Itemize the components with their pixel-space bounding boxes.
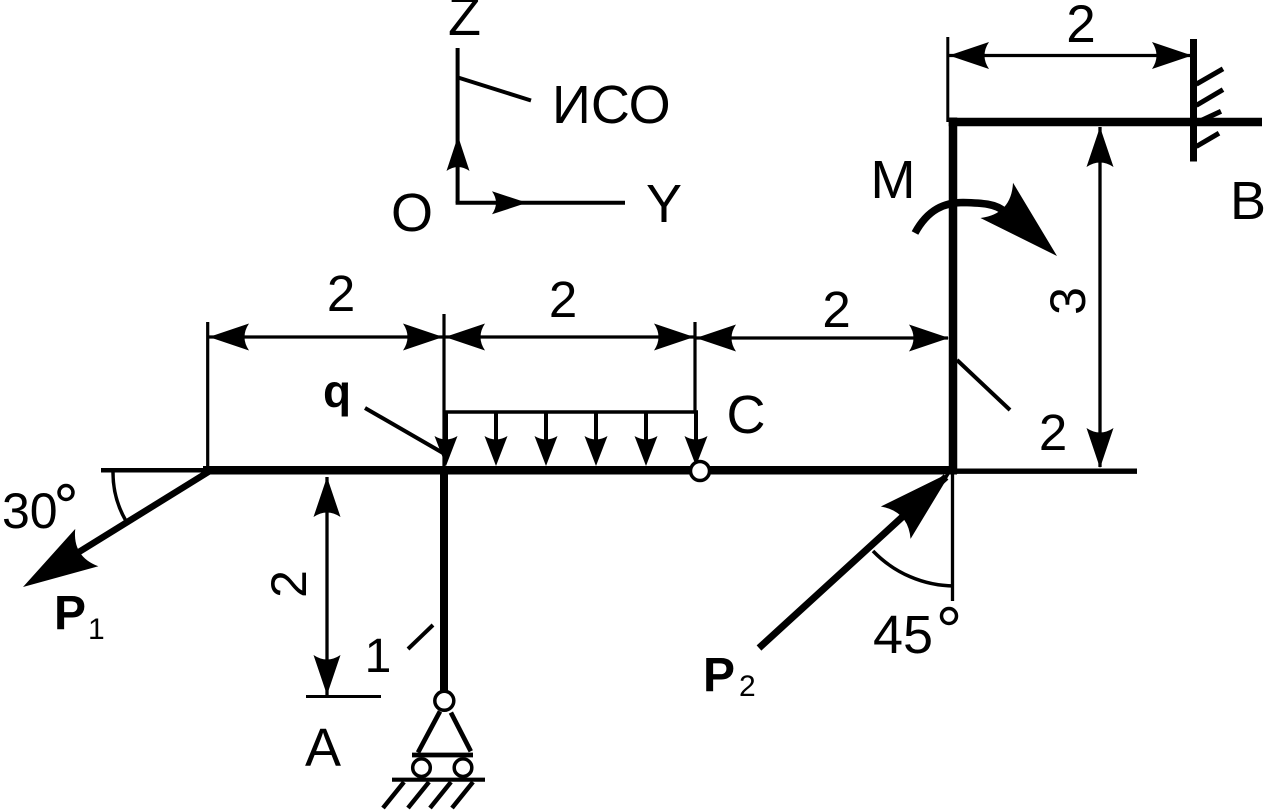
45 degree reference line below junction — [951, 474, 954, 601]
leader line for label 1 — [408, 625, 433, 649]
vertical member at junction (to top beam) — [949, 118, 958, 475]
dimension tick at member 1 — [442, 314, 445, 466]
degree circle of 30 — [59, 486, 73, 500]
top dimension left tick — [946, 37, 949, 122]
svg-text:45: 45 — [873, 605, 933, 665]
hinge C circle — [691, 462, 710, 481]
svg-text:2: 2 — [1066, 0, 1095, 54]
span 1 left arrowhead — [209, 324, 249, 351]
vertical dimension 2: bottom extension line — [306, 695, 381, 698]
svg-text:2: 2 — [822, 281, 850, 338]
beam level extension line right of junction — [952, 469, 1137, 474]
leader line for label 2 at vertical member — [957, 360, 1010, 410]
svg-text:M: M — [871, 150, 916, 210]
svg-text:q: q — [323, 365, 351, 417]
support A hatch 2 — [408, 782, 429, 808]
support A triangle right leg — [451, 713, 471, 752]
vertical dimension 3: top arrowhead — [1087, 127, 1114, 167]
dimension tick at C — [693, 322, 696, 412]
svg-text:2: 2 — [1039, 404, 1067, 461]
force P2 shaft — [759, 477, 946, 648]
span 2 left arrowhead — [445, 324, 485, 351]
svg-text:2: 2 — [261, 570, 317, 598]
svg-text:P: P — [54, 587, 86, 640]
dimension line span 1 — [209, 335, 443, 338]
load arrow 6 — [685, 413, 708, 466]
coordinate frame: Z axis line — [456, 48, 460, 203]
wall hatch stroke 2 — [1196, 90, 1223, 106]
dimension line span 2 — [445, 335, 694, 338]
wall hatch stroke 1 — [1196, 69, 1223, 84]
svg-text:A: A — [305, 718, 341, 778]
load arrow 4 — [585, 413, 608, 466]
svg-text:1: 1 — [88, 613, 105, 646]
30 degree arc — [113, 472, 126, 521]
leader line from q — [365, 408, 443, 453]
support A pin circle — [435, 691, 454, 710]
vertical dimension 2 (left of member 1): line — [325, 477, 328, 695]
top horizontal beam — [949, 118, 1262, 127]
support A hatch 3 — [430, 782, 451, 808]
support A triangle base line — [412, 753, 473, 758]
support A roller right — [454, 759, 472, 777]
force P1 arrowhead — [11, 529, 98, 606]
svg-text:Y: Y — [646, 174, 682, 234]
span 1 right arrowhead — [403, 324, 443, 351]
coordinate frame: Y axis arrowhead — [492, 191, 527, 214]
svg-text:30: 30 — [2, 483, 58, 539]
vertical dimension 2: bottom arrowhead — [314, 655, 341, 695]
vertical dimension 3: line — [1098, 127, 1101, 467]
degree circle of 45 — [942, 609, 957, 624]
svg-text:2: 2 — [327, 265, 355, 322]
wall hatch stroke 3 — [1196, 111, 1221, 123]
span 3 right arrowhead — [909, 325, 949, 352]
top dimension right arrowhead — [1152, 42, 1192, 69]
span 3 left arrowhead — [696, 325, 736, 352]
moment arrowhead — [980, 183, 1073, 274]
load arrow 5 — [635, 413, 658, 466]
distributed load top line — [444, 410, 698, 414]
force P1 shaft — [45, 472, 209, 574]
svg-text:1: 1 — [365, 630, 392, 683]
moment arc — [915, 203, 1005, 234]
coordinate frame: Y axis line — [456, 201, 625, 205]
dimension line span 3 — [696, 336, 948, 339]
support A ground line — [392, 778, 485, 782]
svg-text:2: 2 — [549, 271, 577, 328]
svg-text:2: 2 — [739, 670, 756, 703]
vertical dimension 2: top arrowhead — [314, 477, 341, 517]
coordinate frame: Z axis arrowhead — [447, 136, 470, 171]
svg-text:3: 3 — [1040, 287, 1096, 315]
wall hatch stroke 4 — [1196, 133, 1219, 146]
top dimension left arrowhead — [949, 42, 989, 69]
svg-text:C: C — [727, 385, 766, 445]
main horizontal beam — [203, 466, 957, 475]
svg-text:Z: Z — [448, 0, 481, 47]
svg-text:ИСО: ИСО — [552, 75, 671, 135]
load arrow 1 — [435, 413, 458, 466]
load arrow 3 — [535, 413, 558, 466]
dimension ticks: left tick of first span — [206, 322, 209, 474]
force P2 arrowhead — [881, 456, 966, 539]
45 degree arc — [873, 551, 954, 586]
wall line of fixed support B — [1190, 39, 1197, 162]
support A roller left — [413, 759, 431, 777]
vertical dimension 3: bottom arrowhead — [1087, 428, 1114, 468]
main beam thin left segment — [101, 468, 207, 473]
top dimension line — [948, 54, 1192, 57]
svg-text:P: P — [703, 649, 735, 702]
coordinate frame: leader line to ISO label — [458, 78, 531, 101]
svg-text:O: O — [391, 183, 433, 243]
svg-text:B: B — [1230, 171, 1266, 231]
member 1 vertical bar — [440, 466, 448, 691]
support A hatch 1 — [383, 782, 404, 808]
span 2 right arrowhead — [654, 324, 694, 351]
support A triangle left leg — [418, 711, 440, 752]
support A hatch 4 — [452, 782, 473, 808]
load arrow 2 — [485, 413, 508, 466]
